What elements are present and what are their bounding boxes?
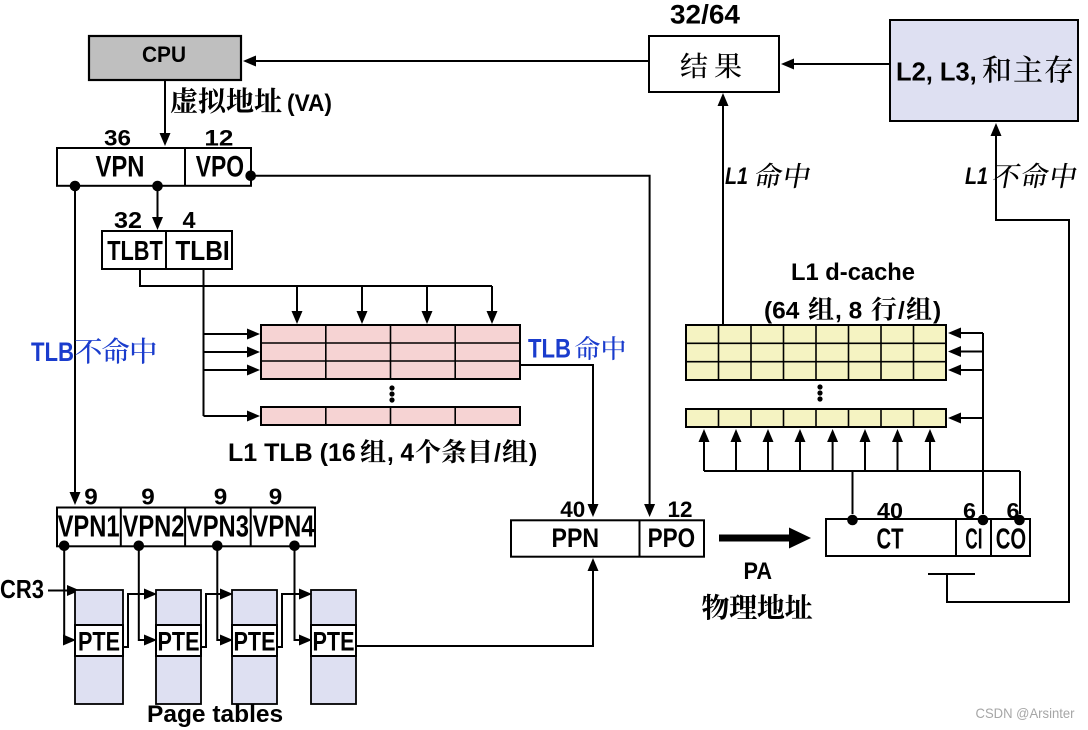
svg-text:L1: L1	[725, 163, 748, 190]
svg-text:L2, L3,: L2, L3,	[896, 59, 977, 87]
node VPN-left dot	[70, 181, 81, 192]
box PPN/PPO	[511, 520, 704, 556]
svg-text:VPN1: VPN1	[58, 509, 120, 544]
svg-text:): )	[529, 439, 537, 467]
svg-text:(VA): (VA)	[287, 90, 332, 117]
svg-text:36: 36	[104, 126, 131, 151]
svg-text:TLB: TLB	[528, 334, 571, 364]
wire L2-to-result	[790, 63, 890, 65]
svg-text:CO: CO	[996, 524, 1026, 556]
L1 d-cache bottom row	[686, 409, 946, 427]
svg-text:40: 40	[560, 497, 585, 522]
page table 3	[232, 590, 277, 625]
svg-text:4: 4	[183, 207, 196, 233]
TLB ellipsis dots	[389, 385, 394, 390]
wire L1-hit cache-to-result	[722, 103, 724, 325]
svg-text:PPN: PPN	[552, 523, 600, 553]
svg-text:, 4: , 4	[387, 439, 414, 467]
svg-text:L1 TLB (16: L1 TLB (16	[228, 439, 356, 467]
node CT dot	[847, 515, 858, 526]
svg-text:PTE: PTE	[313, 627, 355, 657]
svg-text:L1: L1	[965, 163, 988, 190]
thick PA arrow	[719, 528, 811, 549]
box CT/CI/CO	[826, 519, 1030, 556]
wire TLB-hit-to-PPN	[520, 365, 593, 506]
svg-text:, 8: , 8	[835, 298, 862, 325]
wire CR3 arrow	[48, 590, 69, 592]
wires VPN-digits to PTEs	[63, 546, 66, 640]
wires PTE-to-next-table	[123, 594, 146, 647]
svg-text:PTE: PTE	[234, 627, 276, 657]
L1 d-cache grid	[686, 325, 946, 380]
svg-text:TLB: TLB	[31, 337, 74, 367]
svg-text:CSDN @Arsinter: CSDN @Arsinter	[976, 706, 1075, 721]
wire TLBT-to-TLB-sets	[140, 269, 492, 286]
page table 4	[311, 590, 356, 625]
wire CPU-to-VPN VA	[164, 80, 166, 135]
svg-text:9: 9	[141, 484, 155, 510]
node VPO dot	[245, 171, 256, 182]
box VPN1-4	[57, 508, 315, 547]
svg-text:VPN3: VPN3	[187, 509, 249, 544]
wire PTE4-to-PPN	[356, 568, 593, 646]
box TLBT/TLBI	[102, 231, 232, 269]
cache ellipsis dots	[817, 384, 822, 389]
svg-text:12: 12	[204, 126, 233, 151]
svg-text:CR3: CR3	[0, 574, 44, 604]
svg-text:PPO: PPO	[648, 523, 696, 553]
wire bus-to-CT	[852, 471, 854, 514]
svg-text:VPN4: VPN4	[253, 509, 316, 544]
svg-text:9: 9	[214, 484, 228, 510]
wire bus-to-CO	[1019, 471, 1021, 514]
svg-text:L1 d-cache: L1 d-cache	[791, 259, 915, 286]
svg-text:VPN2: VPN2	[123, 509, 185, 544]
svg-text:CT: CT	[877, 524, 904, 556]
L1 TLB bottom row	[261, 407, 520, 425]
page table 1	[75, 590, 123, 625]
svg-text:VPN: VPN	[96, 151, 145, 184]
svg-text:CI: CI	[965, 524, 982, 556]
svg-text:32/64: 32/64	[670, 0, 740, 30]
box L2 L3 main memory	[890, 20, 1078, 121]
svg-text:Page tables: Page tables	[147, 701, 283, 728]
wire VPN-to-TLBT	[157, 186, 159, 219]
nodes VPN1-4 dots	[59, 541, 70, 552]
box VPN/VPO	[57, 148, 251, 186]
node CI dot	[978, 515, 989, 526]
label physical address	[702, 594, 729, 620]
svg-text:PTE: PTE	[78, 627, 120, 657]
bus below cache	[704, 470, 1020, 472]
wire VPN-to-VPN1	[74, 186, 76, 494]
node CO dot	[1014, 515, 1025, 526]
svg-text:VPO: VPO	[196, 151, 244, 184]
svg-text:9: 9	[269, 484, 283, 510]
box CPU	[89, 36, 241, 80]
svg-text:CPU: CPU	[142, 42, 186, 67]
node VPN-right dot	[152, 181, 163, 192]
svg-text:9: 9	[84, 484, 98, 510]
svg-text:(64: (64	[764, 298, 800, 325]
svg-text:PTE: PTE	[158, 627, 200, 657]
wire set-select CI vertical	[982, 333, 984, 514]
page table 2	[156, 590, 201, 625]
box result	[649, 36, 779, 92]
wire VPO-to-PPO	[251, 176, 650, 506]
svg-text:32: 32	[114, 207, 142, 233]
wire L1-miss to L2	[947, 133, 1069, 602]
bar below CT	[928, 573, 975, 575]
svg-text:TLBI: TLBI	[175, 235, 229, 266]
svg-text:/: /	[898, 298, 905, 325]
label virtual address (VA)	[171, 87, 197, 113]
wire TLBI-to-TLB-rows	[203, 269, 205, 416]
wire result-to-CPU	[252, 60, 649, 62]
svg-text:TLBT: TLBT	[107, 235, 163, 266]
svg-text:PA: PA	[744, 558, 773, 585]
svg-text:12: 12	[668, 497, 693, 522]
svg-text:/: /	[494, 439, 501, 467]
L1 TLB grid	[261, 325, 520, 379]
svg-text:): )	[933, 298, 941, 325]
